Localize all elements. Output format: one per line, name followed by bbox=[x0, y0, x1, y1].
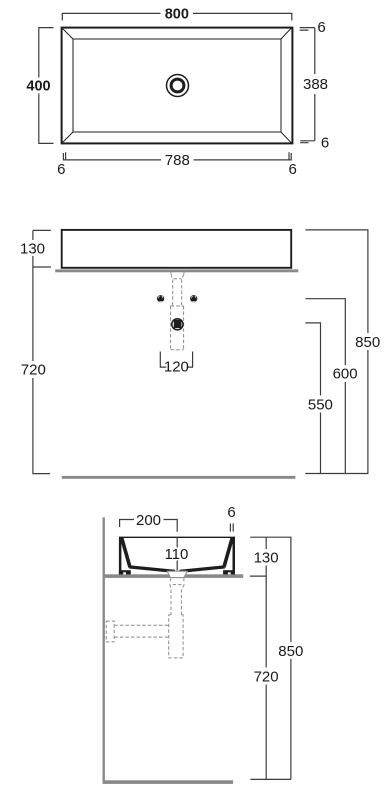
top view outer rim rectangle bbox=[62, 28, 293, 144]
svg-text:720: 720 bbox=[21, 362, 46, 379]
dimension 200 bbox=[120, 512, 178, 532]
dimension 120 brackets bbox=[160, 352, 192, 368]
svg-text:130: 130 bbox=[20, 240, 45, 257]
basin section left foot band bbox=[119, 570, 131, 574]
dimension 850 side bbox=[277, 537, 305, 779]
basin section bottom slab left bbox=[129, 565, 175, 573]
dimension 800 line bbox=[62, 7, 291, 23]
drain fitting trapezoid bbox=[167, 571, 187, 577]
dashed drain pipe upper funnel bbox=[171, 271, 184, 306]
drain valve dot bbox=[172, 319, 183, 330]
svg-text:388: 388 bbox=[303, 76, 328, 93]
basin section right foot band bbox=[223, 570, 235, 574]
faucet fixing hole left bbox=[157, 295, 164, 302]
svg-text:788: 788 bbox=[165, 152, 190, 169]
dimension 720 side bbox=[254, 576, 279, 779]
dashed waste branch side bbox=[114, 625, 169, 637]
svg-text:6: 6 bbox=[317, 19, 325, 36]
dimension 130 bbox=[20, 230, 51, 267]
dimension 850 front bbox=[305, 230, 382, 474]
countertop bar bbox=[55, 269, 298, 272]
788 end tick marks bbox=[66, 152, 289, 160]
svg-text:6: 6 bbox=[57, 161, 65, 178]
svg-text:6: 6 bbox=[227, 504, 235, 521]
countertop bar side bbox=[103, 574, 244, 578]
6 mm marks top right bbox=[300, 28, 315, 31]
dimension 788 line bbox=[63, 152, 291, 169]
svg-text:6: 6 bbox=[321, 134, 329, 151]
floor reference line side bbox=[250, 778, 291, 780]
top view inner basin rectangle bbox=[73, 39, 281, 132]
svg-text:800: 800 bbox=[165, 7, 189, 23]
svg-text:600: 600 bbox=[333, 366, 358, 383]
floor reference line right bbox=[305, 473, 368, 475]
6 mm rim marks side bbox=[230, 523, 233, 531]
dimension 400 line bbox=[26, 28, 53, 144]
svg-text:850: 850 bbox=[355, 334, 380, 351]
basin front outline bbox=[62, 230, 292, 268]
svg-text:110: 110 bbox=[164, 546, 188, 563]
dashed tailpiece funnel side bbox=[170, 578, 185, 615]
basin section right foot notch bbox=[228, 572, 231, 574]
dimension 130 side bbox=[250, 537, 292, 576]
svg-text:200: 200 bbox=[136, 512, 161, 529]
drain outer circle bbox=[167, 75, 189, 97]
dimension 600 front bbox=[305, 299, 359, 474]
svg-text:720: 720 bbox=[254, 668, 279, 685]
dashed drain pipe crossing counter bbox=[167, 269, 186, 271]
basin section right inner wall wedge bbox=[222, 537, 234, 568]
centerline ticks bbox=[176, 537, 178, 570]
dashed drain pipe body bbox=[171, 306, 184, 350]
rim chamfer corner lines bbox=[62, 28, 291, 142]
basin section left outer wall bbox=[119, 537, 122, 574]
basin section rim line bbox=[119, 536, 235, 538]
svg-text:120: 120 bbox=[164, 359, 189, 376]
dashed drain pipe shoulder bbox=[171, 305, 184, 307]
dashed trap body side bbox=[169, 615, 183, 658]
basin section left inner wall wedge bbox=[120, 537, 132, 568]
floor slab bar front bbox=[62, 476, 296, 479]
6 mm marks bottom right bbox=[300, 141, 315, 143]
svg-text:850: 850 bbox=[278, 643, 303, 660]
dimension 720 bbox=[21, 267, 50, 474]
svg-text:130: 130 bbox=[254, 550, 279, 567]
svg-text:550: 550 bbox=[308, 396, 333, 413]
svg-text:6: 6 bbox=[289, 161, 297, 178]
dashed wall flange side bbox=[106, 621, 114, 642]
basin section right outer wall bbox=[233, 537, 236, 574]
drain inner ring bbox=[171, 79, 184, 92]
dimension 388 line bbox=[302, 28, 329, 141]
svg-text:400: 400 bbox=[26, 79, 50, 95]
basin section bottom slab right bbox=[180, 565, 226, 573]
wall line bbox=[102, 517, 104, 783]
basin section left foot notch bbox=[123, 572, 126, 574]
faucet fixing hole right bbox=[190, 295, 197, 302]
floor slab bar side bbox=[103, 780, 234, 784]
dimension 550 front bbox=[305, 323, 334, 474]
